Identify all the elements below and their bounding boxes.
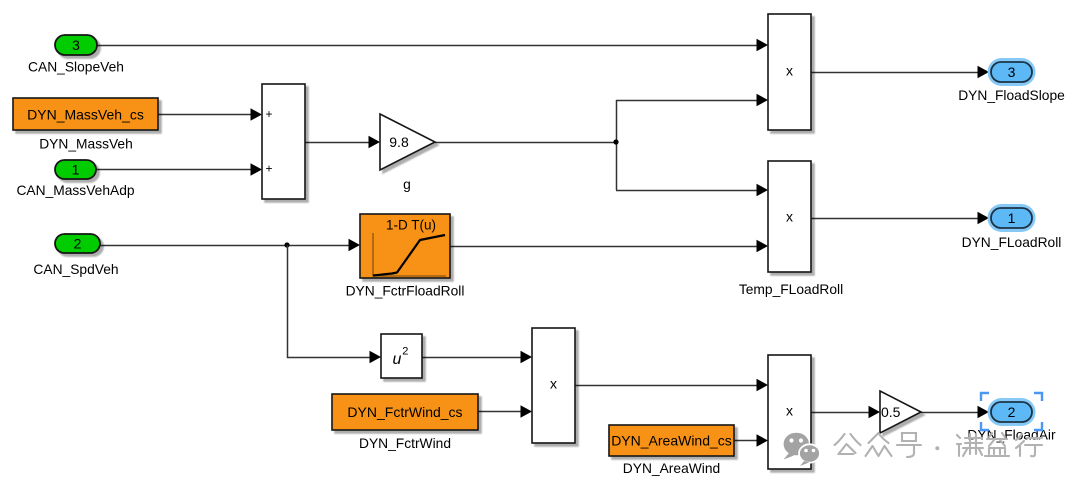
svg-text:Temp_FLoadRoll: Temp_FLoadRoll	[739, 282, 843, 297]
svg-text:0.5: 0.5	[881, 404, 901, 420]
watermark wechat icon	[784, 433, 821, 466]
svg-text:DYN_FctrWind: DYN_FctrWind	[359, 436, 451, 451]
inport 2 CAN_SpdVeh	[33, 234, 118, 277]
wire from CAN_SlopeVeh to Product1 in1	[97, 45, 758, 47]
svg-text:DYN_MassVeh_cs: DYN_MassVeh_cs	[27, 107, 144, 123]
node junction gain branch	[613, 139, 618, 144]
product block Product3	[532, 328, 575, 443]
svg-text:1: 1	[1008, 210, 1016, 226]
selection corner brackets	[981, 393, 1042, 430]
svg-text:+: +	[265, 107, 272, 121]
lookup table DYN_FctrFloadRoll	[346, 214, 465, 299]
wire from Product4 out to Gain 0.5	[810, 412, 870, 414]
svg-text:CAN_SlopeVeh: CAN_SlopeVeh	[28, 59, 124, 74]
svg-text:DYN_FctrWind_cs: DYN_FctrWind_cs	[347, 404, 462, 420]
svg-text:DYN_AreaWind: DYN_AreaWind	[623, 461, 720, 476]
product block Product4	[768, 355, 811, 469]
svg-text:DYN_AreaWind_cs: DYN_AreaWind_cs	[611, 433, 732, 449]
svg-text:DYN_FloadSlope: DYN_FloadSlope	[958, 88, 1065, 103]
svg-text:u: u	[393, 351, 402, 368]
wire from DYN_FctrWind_cs to Product3 in2	[478, 411, 522, 413]
svg-text:x: x	[786, 63, 793, 79]
svg-text:2: 2	[1008, 404, 1016, 420]
gain g 9.8	[380, 114, 435, 192]
node junction speed branch	[284, 242, 289, 247]
wire from lookup table to Product2 in2	[450, 246, 758, 248]
product block Product2 Temp_FLoadRoll	[739, 161, 843, 297]
watermark text qianyixing	[957, 433, 1042, 456]
wire from CAN_SpdVeh to lookup table	[100, 245, 350, 247]
svg-text:g: g	[403, 177, 411, 192]
wire branch to Product2 in1	[616, 190, 758, 192]
inport 3 CAN_SlopeVeh	[28, 35, 124, 74]
wire from Gain g out to junction	[435, 142, 616, 144]
svg-text:+: +	[265, 161, 272, 175]
svg-text:1: 1	[72, 162, 80, 178]
wire vertical speed branch	[288, 245, 372, 358]
wire branch to Product1 in2	[616, 100, 758, 102]
svg-text:2: 2	[74, 236, 82, 252]
wire from Product2 out to DYN_FLoadRoll	[811, 218, 979, 220]
outport 2 DYN_FloadAir selected	[967, 398, 1056, 443]
wire from Product1 out to DYN_FloadSlope	[811, 72, 979, 74]
svg-text:9.8: 9.8	[389, 134, 409, 150]
wire from Sum out to Gain g	[305, 142, 370, 144]
sum block	[262, 84, 305, 199]
svg-text:x: x	[550, 376, 557, 392]
svg-text:DYN_FctrFloadRoll: DYN_FctrFloadRoll	[346, 284, 465, 299]
constant block DYN_MassVeh_cs	[13, 98, 158, 152]
inport 1 CAN_MassVehAdp	[16, 160, 134, 198]
wire from DYN_AreaWind_cs to Product4 in2	[734, 440, 758, 442]
svg-text:1-D T(u): 1-D T(u)	[386, 217, 436, 232]
constant block DYN_FctrWind_cs	[332, 394, 478, 451]
svg-text:CAN_SpdVeh: CAN_SpdVeh	[33, 262, 118, 277]
watermark text gongzhonghao	[835, 433, 922, 457]
svg-text:x: x	[786, 209, 793, 225]
gain 0.5	[880, 391, 921, 433]
product block Product1	[768, 14, 811, 130]
wire from DYN_MassVeh_cs to Sum in1	[158, 114, 252, 116]
svg-text:2: 2	[402, 345, 408, 357]
outport 3 DYN_FloadSlope	[958, 58, 1065, 103]
watermark dot separator	[935, 446, 939, 450]
svg-text:x: x	[786, 403, 793, 419]
outport 1 DYN_FLoadRoll	[962, 204, 1062, 250]
wire from u2 to Product3 in1	[422, 357, 522, 359]
wire from CAN_MassVehAdp to Sum in2	[96, 169, 252, 171]
svg-text:3: 3	[72, 37, 80, 53]
wire vertical branch at junction	[616, 100, 618, 190]
square block u2	[381, 334, 422, 378]
svg-text:DYN_MassVeh: DYN_MassVeh	[39, 137, 133, 152]
wire from Product3 out to Product4 in1	[575, 385, 758, 387]
svg-text:DYN_FLoadRoll: DYN_FLoadRoll	[962, 235, 1062, 250]
constant block DYN_AreaWind_cs	[609, 425, 734, 476]
svg-text:3: 3	[1008, 64, 1016, 80]
wire from Gain 0.5 to DYN_FloadAir	[921, 412, 979, 414]
svg-text:CAN_MassVehAdp: CAN_MassVehAdp	[16, 183, 134, 198]
